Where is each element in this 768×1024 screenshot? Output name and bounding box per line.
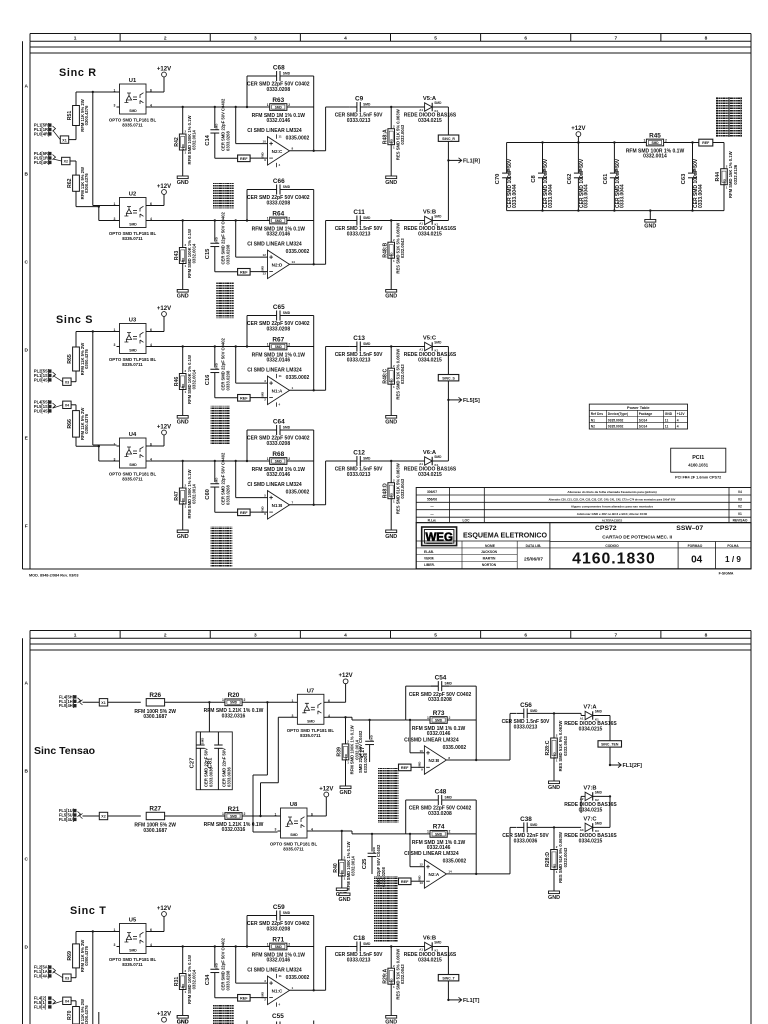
sheet frame <box>23 631 752 1024</box>
svg-text:LOC: LOC <box>463 519 471 523</box>
svg-text:FOLHA: FOLHA <box>727 544 739 548</box>
jumper X3 <box>63 378 71 385</box>
svg-text:Sinc Tensao: Sinc Tensao <box>34 745 95 757</box>
svg-text:SMD: SMD <box>307 719 315 723</box>
svg-text:R20: R20 <box>228 692 240 699</box>
resistor R28:D <box>545 832 568 883</box>
svg-text:X1: X1 <box>101 701 105 705</box>
svg-text:SMD: SMD <box>290 833 298 837</box>
svg-text:0332.0043: 0332.0043 <box>400 964 405 984</box>
svg-text:R71: R71 <box>272 936 284 943</box>
svg-text:A1: A1 <box>419 221 423 225</box>
svg-text:LIBER.: LIBER. <box>424 563 435 567</box>
svg-text:A1: A1 <box>419 347 423 351</box>
ground <box>385 416 397 426</box>
svg-text:JACKSON: JACKSON <box>481 550 498 554</box>
svg-text:C13: C13 <box>353 335 365 342</box>
svg-text:REF: REF <box>240 397 248 401</box>
svg-text:C70: C70 <box>495 174 501 185</box>
sheet frame <box>23 34 752 570</box>
svg-text:1: 1 <box>267 216 269 220</box>
svg-text:CPS72: CPS72 <box>595 525 617 532</box>
jumper X3 <box>63 974 71 981</box>
svg-text:X3: X3 <box>65 380 69 384</box>
svg-text:C55: C55 <box>272 1013 284 1020</box>
REF net label <box>238 269 251 276</box>
svg-text:C18: C18 <box>353 935 365 942</box>
svg-text:0333.0213: 0333.0213 <box>514 724 538 730</box>
svg-text:SMD: SMD <box>363 342 371 346</box>
diode V5:C <box>404 336 457 364</box>
svg-text:D: D <box>24 347 28 353</box>
svg-text:GND: GND <box>340 790 352 796</box>
svg-text:FL0[4U]: FL0[4U] <box>59 817 75 822</box>
svg-text:ELAB.: ELAB. <box>424 550 434 554</box>
op-amp N2:C <box>247 128 309 167</box>
svg-text:GND: GND <box>177 420 189 426</box>
svg-text:REF: REF <box>240 271 248 275</box>
connector net stack <box>213 1004 234 1024</box>
resistor R46 <box>174 355 197 404</box>
svg-text:0332.0146: 0332.0146 <box>266 958 290 964</box>
svg-text:SMD: SMD <box>445 682 453 686</box>
svg-text:SMD: SMD <box>129 223 137 227</box>
capacitor C16 <box>205 363 219 385</box>
svg-text:C16: C16 <box>205 374 211 385</box>
resistor R48:C <box>382 349 405 400</box>
svg-text:0300.4376: 0300.4376 <box>84 348 89 368</box>
svg-text:CI SMD LINEAR LM324: CI SMD LINEAR LM324 <box>247 128 302 134</box>
svg-text:SMD: SMD <box>129 109 137 113</box>
op-amp N1:B <box>247 482 309 519</box>
wire feedback loop <box>246 916 248 947</box>
svg-text:0334.0215: 0334.0215 <box>579 726 603 732</box>
wire main signal line <box>149 946 314 948</box>
resistor R42 <box>174 116 197 165</box>
svg-text:R51: R51 <box>67 111 73 121</box>
svg-text:0335.0002: 0335.0002 <box>286 975 310 981</box>
svg-text:R28:D: R28:D <box>545 852 551 867</box>
svg-text:0332.0043: 0332.0043 <box>400 238 405 258</box>
svg-text:0332.0014: 0332.0014 <box>192 369 197 389</box>
svg-text:0333.0044: 0333.0044 <box>698 184 704 208</box>
svg-text:3: 3 <box>114 104 116 108</box>
svg-text:6: 6 <box>524 35 527 41</box>
svg-text:SMD: SMD <box>275 945 283 949</box>
capacitor C54 <box>409 675 472 703</box>
connector net stack <box>211 406 230 445</box>
svg-text:+12V: +12V <box>157 1012 171 1018</box>
svg-text:0332.0014: 0332.0014 <box>351 855 356 875</box>
svg-text:R28:C: R28:C <box>545 740 551 755</box>
svg-text:+12V: +12V <box>677 412 686 416</box>
svg-text:U4: U4 <box>129 432 137 438</box>
svg-text:11: 11 <box>665 418 669 422</box>
capacitor C11 <box>335 209 383 237</box>
jumper X2 <box>62 157 70 164</box>
svg-text:R66: R66 <box>67 419 73 429</box>
svg-text:C12: C12 <box>353 450 365 457</box>
svg-text:A1: A1 <box>419 462 423 466</box>
svg-text:X1: X1 <box>62 138 66 142</box>
svg-text:556/06: 556/06 <box>427 497 437 501</box>
wire main signal line <box>149 106 314 108</box>
diode V7:C <box>564 817 617 845</box>
svg-text:2: 2 <box>288 457 290 461</box>
svg-text:C38: C38 <box>520 816 532 823</box>
svg-text:2: 2 <box>288 342 290 346</box>
svg-text:R48:A: R48:A <box>382 129 388 144</box>
svg-text:1: 1 <box>267 342 269 346</box>
svg-text:GND: GND <box>548 785 560 791</box>
capacitor C63 <box>692 143 694 174</box>
capacitor C59 <box>247 904 310 932</box>
svg-text:GND: GND <box>385 180 397 186</box>
svg-text:SMD: SMD <box>215 124 219 130</box>
svg-text:R.Lw.: R.Lw. <box>428 519 437 523</box>
svg-text:0332.0146: 0332.0146 <box>266 472 290 478</box>
svg-text:1: 1 <box>74 632 77 638</box>
svg-text:R62: R62 <box>67 178 73 188</box>
capacitor C17 <box>369 720 371 740</box>
svg-text:14: 14 <box>448 870 452 874</box>
svg-text:CI SMD LINEAR LM324: CI SMD LINEAR LM324 <box>404 851 459 857</box>
jumper X4 <box>63 997 71 1004</box>
svg-text:+12V: +12V <box>157 184 171 190</box>
svg-text:C34: C34 <box>205 974 211 985</box>
op-amp N2:A <box>404 851 466 888</box>
svg-text:CI SMD LINEAR LM324: CI SMD LINEAR LM324 <box>404 737 459 743</box>
svg-text:03: 03 <box>738 497 742 501</box>
wire feedback loop <box>405 686 407 720</box>
opto-coupler U2 <box>109 192 157 242</box>
svg-text:R48:C: R48:C <box>382 368 388 383</box>
svg-text:R48:D: R48:D <box>382 483 388 498</box>
svg-text:0333.0213: 0333.0213 <box>347 357 371 363</box>
ground <box>339 893 351 903</box>
opto-coupler U8 <box>270 802 318 852</box>
svg-text:C66: C66 <box>273 178 285 185</box>
svg-text:PCI FR4 2F 1.6mm CPS72: PCI FR4 2F 1.6mm CPS72 <box>675 476 721 480</box>
wire to FL output <box>447 107 449 160</box>
svg-text:R21: R21 <box>228 806 240 813</box>
svg-text:4160.1031: 4160.1031 <box>688 463 708 468</box>
svg-text:U8: U8 <box>290 802 298 808</box>
svg-text:2: 2 <box>243 812 245 816</box>
resistor R62 <box>67 167 89 199</box>
resistor R67 <box>252 336 306 363</box>
svg-text:R43: R43 <box>174 251 180 261</box>
+12V supply <box>571 126 585 137</box>
svg-text:5: 5 <box>434 632 437 638</box>
svg-text:1: 1 <box>275 813 277 817</box>
svg-text:SMD: SMD <box>595 791 603 795</box>
svg-text:U2: U2 <box>129 192 136 198</box>
svg-text:REF: REF <box>702 141 710 145</box>
svg-text:1: 1 <box>267 457 269 461</box>
ground <box>548 891 560 901</box>
svg-text:0300.4376: 0300.4376 <box>84 945 89 965</box>
svg-text:SMD: SMD <box>129 463 137 467</box>
capacitor C25 <box>362 847 376 869</box>
svg-text:C62: C62 <box>567 174 573 185</box>
svg-text:FL0[4H]: FL0[4H] <box>59 703 75 708</box>
svg-text:SMD: SMD <box>275 219 283 223</box>
svg-text:R45: R45 <box>649 132 661 139</box>
svg-text:R27: R27 <box>149 806 161 813</box>
wire U pin6 to +12V <box>149 445 164 447</box>
wire ch8 main <box>149 1023 150 1024</box>
svg-text:PL0[4S]: PL0[4S] <box>34 408 50 413</box>
resistor R48:A <box>382 109 405 160</box>
svg-text:2: 2 <box>288 942 290 946</box>
svg-text:2: 2 <box>449 830 451 834</box>
resistor R69 <box>67 940 89 972</box>
svg-text:0332.0014: 0332.0014 <box>192 969 197 989</box>
svg-text:11: 11 <box>279 374 283 378</box>
svg-text:SMD: SMD <box>370 735 374 741</box>
svg-text:R39: R39 <box>337 747 343 757</box>
svg-text:GND: GND <box>339 897 351 903</box>
svg-text:GND: GND <box>548 895 560 901</box>
diode V5:B <box>404 210 457 238</box>
svg-text:SMD: SMD <box>445 796 453 800</box>
svg-text:R40: R40 <box>333 863 339 873</box>
wire feedback loop <box>246 430 248 461</box>
svg-text:0332.0316: 0332.0316 <box>222 713 246 719</box>
svg-text:SMD: SMD <box>595 710 603 714</box>
connector net stack <box>716 97 742 137</box>
wire main signal line <box>149 220 314 222</box>
svg-text:SMD: SMD <box>283 72 291 76</box>
REF net label <box>238 995 251 1002</box>
svg-text:0333.0208: 0333.0208 <box>225 244 230 264</box>
svg-text:REF: REF <box>401 766 409 770</box>
resistor R45 <box>626 132 685 159</box>
svg-text:C48: C48 <box>435 789 447 796</box>
svg-text:8335.0711: 8335.0711 <box>122 362 143 367</box>
capacitor C34 <box>205 963 219 985</box>
svg-text:0332.0136: 0332.0136 <box>733 164 738 184</box>
svg-text:0333.0208: 0333.0208 <box>225 131 230 151</box>
wire diodes join <box>609 796 611 827</box>
svg-text:C59: C59 <box>273 904 285 911</box>
capacitor C56 <box>502 702 550 730</box>
connector net stack <box>374 876 398 942</box>
wire main signal line <box>149 460 314 462</box>
opto-coupler U4 <box>109 432 157 482</box>
wire feedback loop <box>246 76 248 107</box>
svg-text:0333.0208: 0333.0208 <box>225 970 230 990</box>
svg-text:02: 02 <box>738 505 742 509</box>
capacitor C68 <box>247 65 310 93</box>
svg-text:Power Table: Power Table <box>627 405 650 410</box>
svg-text:A: A <box>24 680 28 686</box>
svg-text:2: 2 <box>164 632 167 638</box>
svg-text:N1:C: N1:C <box>272 988 283 993</box>
resistor R63 <box>252 97 306 124</box>
svg-text:14: 14 <box>292 260 296 264</box>
svg-text:C54: C54 <box>435 675 447 682</box>
svg-text:SMD: SMD <box>283 311 291 315</box>
ground <box>177 176 189 186</box>
wire U pin6 to +12V <box>149 205 164 207</box>
svg-text:D: D <box>24 944 28 950</box>
svg-text:8335.0711: 8335.0711 <box>122 477 143 482</box>
node SINC_R <box>438 135 459 141</box>
svg-text:U3: U3 <box>129 318 137 324</box>
svg-text:2: 2 <box>164 35 167 41</box>
svg-text:GND: GND <box>385 294 397 300</box>
svg-text:ESQUEMA ELETRONICO: ESQUEMA ELETRONICO <box>463 532 548 540</box>
svg-text:SMD: SMD <box>363 103 371 107</box>
svg-text:8335.0711: 8335.0711 <box>122 123 143 128</box>
svg-text:0333.0208: 0333.0208 <box>266 926 290 932</box>
resistor R71 <box>252 936 306 963</box>
ground <box>177 1016 189 1024</box>
svg-text:+12V: +12V <box>157 66 171 72</box>
svg-text:GND: GND <box>665 412 673 416</box>
svg-text:C25: C25 <box>362 858 368 869</box>
svg-text:REF: REF <box>240 511 248 515</box>
resistor R20 <box>204 692 264 719</box>
resistor R21 <box>204 806 264 833</box>
svg-text:0332.0043: 0332.0043 <box>400 478 405 498</box>
svg-text:GND: GND <box>644 224 656 230</box>
node SINC_T <box>438 975 459 981</box>
capacitor C81 <box>217 732 219 745</box>
svg-text:0332.0146: 0332.0146 <box>266 232 290 238</box>
resistor R51 <box>67 99 89 131</box>
svg-text:10: 10 <box>419 749 423 753</box>
svg-text:4: 4 <box>344 35 347 41</box>
svg-text:R42: R42 <box>174 137 180 147</box>
svg-text:1: 1 <box>74 35 77 41</box>
svg-text:N2:D: N2:D <box>272 262 283 267</box>
svg-text:FL1[2F]: FL1[2F] <box>623 763 643 769</box>
ground <box>548 781 560 791</box>
node PL net names <box>59 808 81 822</box>
REF net label <box>399 878 412 885</box>
svg-text:01: 01 <box>738 512 742 516</box>
svg-text:0333.0213: 0333.0213 <box>347 957 371 963</box>
resistor R39 <box>337 725 360 774</box>
svg-text:11: 11 <box>279 135 283 139</box>
resistor R64 <box>252 210 306 237</box>
svg-text:1: 1 <box>267 103 269 107</box>
connector net stack <box>378 768 399 823</box>
svg-text:B: B <box>24 171 28 177</box>
jumper X1 <box>99 699 107 706</box>
svg-text:GND: GND <box>385 1020 397 1024</box>
svg-text:N1:A: N1:A <box>272 388 283 393</box>
svg-text:U5: U5 <box>129 918 137 924</box>
svg-text:R48:B: R48:B <box>382 242 388 257</box>
svg-text:0333.0208: 0333.0208 <box>266 200 290 206</box>
svg-text:CARTAO DE POTENCIA MEC. II: CARTAO DE POTENCIA MEC. II <box>602 535 672 540</box>
svg-text:0335.0002: 0335.0002 <box>608 418 624 422</box>
svg-text:10: 10 <box>263 140 267 144</box>
node PL net names <box>59 694 81 708</box>
svg-text:SMD: SMD <box>215 237 219 243</box>
net label box right <box>699 139 713 146</box>
svg-text:SSW–07: SSW–07 <box>676 525 703 532</box>
wire input wiring Sinc R <box>76 91 117 93</box>
svg-text:C11: C11 <box>353 209 365 216</box>
svg-text:SMD: SMD <box>434 455 442 459</box>
svg-text:SMD: SMD <box>283 911 291 915</box>
svg-text:A3: A3 <box>580 828 584 832</box>
svg-text:CI SMD LINEAR LM324: CI SMD LINEAR LM324 <box>247 242 302 248</box>
svg-text:X3: X3 <box>65 976 69 980</box>
svg-text:0333.0213: 0333.0213 <box>347 118 371 124</box>
svg-text:CI SMD LINEAR LM324: CI SMD LINEAR LM324 <box>247 368 302 374</box>
svg-text:Device(Type): Device(Type) <box>608 412 628 416</box>
svg-text:GND: GND <box>385 420 397 426</box>
svg-text:Sinc R: Sinc R <box>59 67 97 79</box>
capacitor C15 <box>205 237 219 259</box>
svg-text:4160.1830: 4160.1830 <box>572 551 656 568</box>
svg-text:0300.4376: 0300.4376 <box>84 413 89 433</box>
svg-text:0335.0002: 0335.0002 <box>286 490 310 496</box>
svg-text:SINC_R: SINC_R <box>442 137 455 141</box>
svg-text:3: 3 <box>275 828 277 832</box>
resistor R28:C <box>545 721 568 772</box>
svg-text:GND: GND <box>177 180 189 186</box>
svg-text:7: 7 <box>614 632 617 638</box>
svg-text:REF: REF <box>240 157 248 161</box>
svg-text:SMD: SMD <box>275 459 283 463</box>
op-amp N1:A <box>247 368 309 407</box>
svg-text:0300.4376: 0300.4376 <box>84 105 89 125</box>
svg-text:SO14: SO14 <box>639 418 648 422</box>
REF net label <box>399 764 412 771</box>
diode V6:B <box>404 936 457 964</box>
svg-text:0333.0208: 0333.0208 <box>266 326 290 332</box>
svg-text:CI SMD LINEAR LM324: CI SMD LINEAR LM324 <box>247 482 302 488</box>
wires U8 output <box>310 830 352 832</box>
resistor R48:B <box>382 223 405 274</box>
capacitor C61 <box>613 143 615 174</box>
wire op-amp input/output <box>235 461 237 498</box>
svg-text:N2:A: N2:A <box>429 872 440 877</box>
wire op-amp input/output <box>235 347 237 384</box>
svg-text:SMD: SMD <box>434 215 442 219</box>
svg-text:+12V: +12V <box>157 424 171 430</box>
svg-text:0333.0044: 0333.0044 <box>512 184 518 208</box>
svg-text:0332.0146: 0332.0146 <box>427 731 451 737</box>
svg-text:0334.0215: 0334.0215 <box>418 231 442 237</box>
svg-text:NOME: NOME <box>485 544 496 548</box>
svg-text:0333.0208: 0333.0208 <box>266 441 290 447</box>
svg-text:0333.0208: 0333.0208 <box>363 753 368 773</box>
resistor R66 <box>67 408 89 440</box>
svg-text:SINC_TEN: SINC_TEN <box>601 743 619 747</box>
wire C27/C81 branch <box>208 702 210 732</box>
svg-text:SMD: SMD <box>200 738 204 744</box>
svg-text:SMD: SMD <box>435 832 443 836</box>
wire U pin6 to +12V <box>149 931 164 933</box>
svg-text:C68: C68 <box>273 65 285 72</box>
capacitor C12 <box>335 450 383 478</box>
svg-text:2: 2 <box>449 716 451 720</box>
wire U pin6 to +12V <box>149 331 164 333</box>
svg-text:SMD: SMD <box>129 349 137 353</box>
ground <box>340 786 352 796</box>
svg-text:A1: A1 <box>419 947 423 951</box>
svg-text:0332.0014: 0332.0014 <box>643 154 667 160</box>
svg-text:Adicionar GND e 48V no BC3 e B: Adicionar GND e 48V no BC3 e BC4; Altera… <box>577 512 648 516</box>
